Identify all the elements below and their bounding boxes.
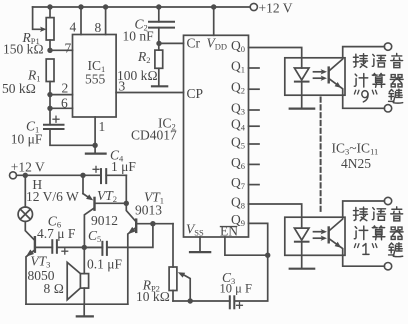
svg-text:+12 V: +12 V	[259, 1, 293, 16]
resistor R1	[46, 59, 54, 95]
char ji 1	[354, 74, 367, 87]
svg-text:10 μ F: 10 μ F	[220, 282, 252, 296]
wire C1 to pin1 node	[50, 129, 95, 145]
svg-text:0.1 μF: 0.1 μF	[87, 257, 122, 272]
wire pin 4	[80, 7, 82, 35]
wire pin 6	[50, 107, 73, 109]
wire Q6 stub	[249, 163, 260, 165]
node EN junction	[265, 253, 270, 258]
svg-text:+12 V: +12 V	[11, 159, 45, 174]
transistor Q VT2 9012	[83, 175, 126, 247]
svg-text:4: 4	[70, 20, 77, 35]
node pin6 junction	[47, 106, 52, 111]
capacitor C2	[149, 7, 174, 43]
svg-text:10 kΩ: 10 kΩ	[136, 289, 170, 304]
svg-text:Q2: Q2	[231, 80, 245, 96]
terminal +12V left	[10, 172, 17, 179]
char yu 1	[372, 54, 385, 67]
IC2 CD4017 box	[184, 35, 249, 237]
svg-text:VDD: VDD	[207, 36, 228, 52]
svg-text:IC3~IC11: IC3~IC11	[332, 141, 379, 157]
node junction rail RP1	[47, 4, 52, 9]
svg-text:CP: CP	[187, 86, 204, 101]
svg-text:C5: C5	[88, 228, 101, 244]
node junction rail VDD	[211, 4, 216, 9]
digit 9	[362, 91, 368, 102]
svg-text:10 μF: 10 μF	[11, 132, 43, 147]
char jie 2	[353, 207, 367, 221]
ground bottom rail	[77, 304, 93, 316]
svg-text:EN: EN	[220, 224, 238, 239]
node junction rail pin8	[103, 4, 108, 9]
char qi 2	[390, 227, 403, 239]
wire Q0 to opto1	[249, 48, 302, 69]
char yin 1	[391, 54, 403, 68]
ground opto2 LED	[290, 268, 315, 270]
ground pin1	[86, 145, 106, 153]
svg-text:2: 2	[62, 81, 69, 96]
speaker BL	[67, 247, 88, 304]
wire Q5 stub	[249, 143, 260, 145]
potentiometer RP1	[33, 7, 54, 50]
char jie 1	[353, 54, 367, 68]
node junction rail C2	[156, 4, 161, 9]
char yu 2	[372, 208, 385, 221]
node pin2 junction	[47, 92, 52, 97]
node pin1 junction	[92, 143, 97, 148]
svg-text:4.7 μ F: 4.7 μ F	[37, 226, 76, 241]
wire Q7 stub	[249, 184, 260, 186]
svg-text:Q6: Q6	[231, 155, 245, 171]
svg-text:555: 555	[85, 72, 106, 87]
char 9 quoted	[354, 90, 377, 94]
transistor Q VT3 8050	[26, 237, 52, 304]
svg-text:9013: 9013	[135, 203, 162, 218]
opto-coupler IC11 box	[285, 217, 345, 255]
char 1 quoted	[354, 244, 377, 248]
digit 1	[363, 244, 369, 255]
light arrows opto2	[314, 229, 328, 241]
svg-text:10 nF: 10 nF	[123, 29, 155, 44]
char suan 2	[372, 226, 385, 240]
terminal opto1 emitter	[384, 105, 391, 112]
wire EN	[225, 237, 268, 255]
svg-text:50 kΩ: 50 kΩ	[2, 81, 36, 96]
capacitor C4	[93, 166, 126, 183]
wire pin 1	[94, 117, 96, 145]
terminal opto2 collector	[384, 197, 391, 204]
dashed separator line	[320, 98, 322, 212]
char jian 2	[389, 243, 403, 257]
node pin7 junction	[47, 48, 52, 53]
svg-text:Q8: Q8	[231, 195, 245, 211]
wire pin2 to pin6	[49, 95, 51, 109]
char ji 2	[354, 226, 367, 239]
wire pin 2	[50, 94, 73, 96]
op-amp U1 box IC1 555	[73, 35, 117, 118]
wire Cr	[159, 42, 184, 44]
node RP2 wiper junction	[188, 298, 193, 303]
node VT1 collector junction	[124, 201, 129, 206]
wire Q4 stub	[249, 125, 260, 127]
wire VDD	[213, 7, 215, 35]
svg-text:1: 1	[99, 119, 106, 134]
node Cr junction	[156, 41, 161, 46]
wire C4 to VT1 node	[125, 175, 127, 203]
wire Q3 stub	[249, 109, 260, 111]
svg-text:7: 7	[65, 41, 72, 56]
char yin 2	[391, 207, 403, 221]
photo-transistor opto2	[329, 201, 385, 266]
svg-text:6: 6	[61, 96, 68, 111]
svg-text:Q1: Q1	[231, 59, 245, 75]
wire base to RP2	[153, 223, 173, 225]
terminal opto2 emitter	[384, 263, 391, 270]
node lamp junction	[23, 173, 28, 178]
char suan 1	[372, 73, 385, 87]
chinese text block key1	[353, 207, 403, 257]
photo-transistor opto1	[329, 47, 385, 109]
svg-text:Q3: Q3	[231, 101, 245, 117]
ground R2	[152, 85, 167, 87]
svg-text:Cr: Cr	[187, 36, 201, 51]
capacitor C1	[44, 108, 64, 129]
wire Q2 stub	[249, 88, 260, 90]
node VT1 base junction	[150, 221, 155, 226]
capacitor C3	[173, 255, 268, 308]
node speaker junction	[82, 245, 87, 250]
svg-text:VT2: VT2	[97, 188, 117, 204]
svg-text:CD4017: CD4017	[131, 128, 177, 143]
svg-text:Q5: Q5	[231, 135, 245, 151]
char qi 1	[390, 75, 403, 87]
capacitor C5	[84, 224, 153, 255]
lamp H	[18, 175, 34, 240]
chinese text block key9	[353, 54, 403, 104]
svg-text:Q4: Q4	[231, 117, 246, 133]
wire pin 7	[50, 49, 73, 51]
wire top +12V rail	[33, 6, 251, 8]
svg-text:Q0: Q0	[231, 38, 245, 54]
svg-text:8 Ω: 8 Ω	[44, 281, 65, 296]
terminal +12V top	[250, 3, 257, 10]
wire Q9 to EN node	[249, 223, 268, 255]
node VT2 emitter junction	[80, 173, 85, 178]
wire bottom ground rail	[26, 303, 128, 305]
wire left +12V rail	[17, 174, 102, 176]
wire Q8 to opto2	[249, 204, 302, 228]
transistor Q VT1 9013	[126, 203, 153, 304]
wire Q1 stub	[249, 67, 260, 69]
node junction rail pin4	[78, 4, 83, 9]
svg-text:150 kΩ: 150 kΩ	[3, 42, 44, 57]
char jian 1	[389, 89, 403, 103]
wire pin 3 to CP	[116, 92, 183, 94]
ground opto1 LED	[290, 107, 315, 109]
ground Vss	[190, 237, 210, 252]
svg-text:100 kΩ: 100 kΩ	[117, 68, 158, 83]
svg-text:4N25: 4N25	[341, 156, 371, 171]
terminal opto1 collector	[384, 43, 391, 50]
svg-text:12 V/6 W: 12 V/6 W	[26, 189, 79, 204]
svg-text:Q7: Q7	[231, 175, 245, 191]
opto-coupler IC3 box	[285, 58, 345, 95]
resistor R2	[155, 43, 163, 85]
svg-text:8: 8	[95, 20, 102, 35]
svg-text:VSS: VSS	[186, 222, 204, 238]
svg-text:R2: R2	[137, 49, 151, 65]
svg-text:1 μF: 1 μF	[111, 159, 136, 174]
LED opto2	[294, 228, 309, 268]
light arrows opto1	[314, 69, 328, 81]
potentiometer RP2	[169, 224, 190, 301]
LED opto1	[294, 68, 309, 108]
wire pin 8	[105, 7, 107, 35]
capacitor C6	[52, 240, 102, 254]
svg-text:9012: 9012	[91, 213, 118, 228]
